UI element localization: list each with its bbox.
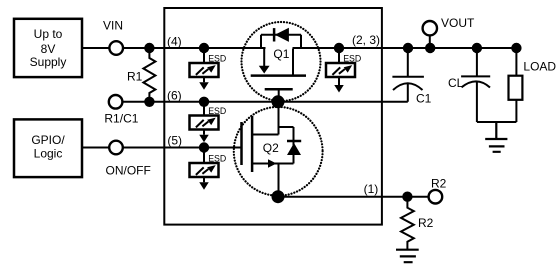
svg-text:LOAD: LOAD xyxy=(523,60,556,74)
svg-text:ON/OFF: ON/OFF xyxy=(106,164,151,178)
svg-text:C1: C1 xyxy=(416,92,432,106)
svg-text:Supply: Supply xyxy=(30,55,67,69)
svg-text:(1): (1) xyxy=(364,182,379,196)
svg-text:(2, 3): (2, 3) xyxy=(352,33,380,47)
svg-text:ESD: ESD xyxy=(343,53,361,63)
svg-text:Up to: Up to xyxy=(34,27,63,41)
svg-text:(5): (5) xyxy=(167,133,182,147)
svg-text:Q1: Q1 xyxy=(273,47,289,61)
svg-text:ESD: ESD xyxy=(208,106,226,116)
svg-text:CL: CL xyxy=(448,76,464,90)
svg-text:R2: R2 xyxy=(431,177,447,191)
svg-text:ESD: ESD xyxy=(208,53,226,63)
svg-text:Logic: Logic xyxy=(34,147,63,161)
svg-text:R2: R2 xyxy=(418,216,434,230)
svg-text:(4): (4) xyxy=(167,34,182,48)
svg-text:Q2: Q2 xyxy=(263,141,279,155)
svg-text:VIN: VIN xyxy=(103,19,123,33)
svg-text:R1/C1: R1/C1 xyxy=(104,112,138,126)
svg-text:GPIO/: GPIO/ xyxy=(31,133,65,147)
svg-text:R1: R1 xyxy=(127,70,143,84)
svg-text:(6): (6) xyxy=(167,88,182,102)
svg-text:VOUT: VOUT xyxy=(441,16,475,30)
svg-text:ESD: ESD xyxy=(208,153,226,163)
